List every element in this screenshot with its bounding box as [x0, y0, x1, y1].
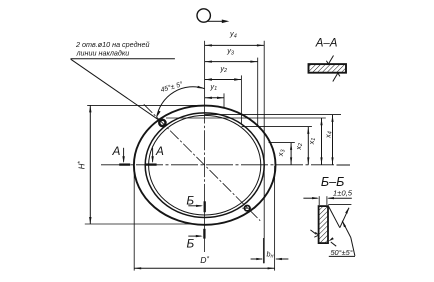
roughness mark left face of strip	[310, 230, 318, 237]
label D*	[200, 255, 209, 265]
x4 dimension line	[331, 115, 333, 165]
H* top extension line	[87, 104, 204, 106]
inner contour ellipse of pad	[145, 113, 264, 218]
vertical centerline / extension for y dims	[204, 41, 206, 252]
hole 2 (lower right)	[242, 206, 251, 211]
y1 extension line	[223, 93, 225, 108]
D* dimension line	[134, 267, 274, 269]
x2 extension line	[242, 126, 312, 128]
D* left extension line	[133, 167, 135, 271]
y2 dimension line	[205, 78, 242, 80]
label H*	[77, 161, 86, 170]
45-degree angular dimension arc	[157, 86, 205, 118]
y1 dimension line	[205, 97, 224, 99]
label x3	[276, 148, 286, 157]
bevel angle line 2	[340, 207, 349, 228]
x1 extension line	[166, 117, 326, 119]
x3 dimension line	[290, 143, 292, 165]
svg-text:А–А: А–А	[315, 37, 338, 49]
svg-text:линии накладки: линии накладки	[76, 48, 130, 57]
right extension line (outer right)	[274, 166, 276, 271]
leader shelf underline	[71, 58, 175, 60]
b_n dimension line left part	[251, 258, 264, 260]
roughness mark bottom right of strip	[329, 237, 337, 246]
thickness dimension line right part	[327, 197, 352, 199]
top surface line of B-B	[328, 203, 351, 205]
inner edge second line	[149, 115, 261, 215]
svg-text:А: А	[155, 144, 164, 158]
x1 dimension line	[320, 118, 322, 165]
45-degree diagonal centerline	[144, 104, 260, 220]
leader line to hole 1	[71, 59, 160, 120]
label B lower	[186, 236, 194, 250]
section B-B cut mark upper	[188, 201, 204, 212]
y3 dimension line	[205, 61, 258, 63]
angle text underline	[329, 255, 355, 257]
label x2	[294, 143, 304, 151]
svg-text:1±0,5: 1±0,5	[333, 189, 353, 198]
label A left	[111, 144, 120, 158]
svg-text:А: А	[111, 144, 120, 158]
b_n left extension line	[262, 238, 264, 263]
label section A-A	[315, 37, 338, 49]
roughness mark bottom of plate	[333, 73, 340, 82]
label y1	[209, 82, 217, 92]
label A right	[155, 144, 164, 158]
section A-A hatched plate	[309, 64, 347, 73]
svg-text:Б–Б: Б–Б	[321, 175, 344, 189]
leader line to angle text	[342, 220, 355, 256]
x3 extension line	[269, 142, 295, 144]
H* dimension line	[89, 105, 91, 224]
horizontal centerline	[101, 164, 350, 166]
label x4	[323, 131, 333, 139]
section A-A cut mark left	[119, 148, 130, 165]
svg-text:Б: Б	[186, 193, 194, 207]
y4 / b_n extension line	[263, 41, 265, 263]
leader note text line 1	[75, 40, 150, 49]
label 1 pm 0,5	[333, 189, 353, 198]
label x1	[307, 138, 317, 146]
svg-text:Б: Б	[186, 236, 194, 250]
label y3	[226, 46, 235, 56]
section B-B hatched strip	[319, 206, 328, 243]
label y2	[219, 64, 227, 74]
thickness extension lines	[319, 196, 327, 205]
label 50deg pm 5	[330, 248, 352, 257]
label b_n	[267, 249, 274, 259]
leader note text line 2	[76, 48, 130, 57]
section A-A cut mark right	[145, 148, 156, 165]
bevel angle line 1	[329, 207, 340, 228]
svg-text:50°±5°: 50°±5°	[330, 248, 352, 257]
H* bottom extension line	[85, 223, 197, 225]
hole 1 (upper left, 2 otv. d10)	[159, 120, 165, 126]
label 45deg pm 5	[160, 80, 184, 94]
roughness mark top of plate	[326, 56, 333, 65]
x2 dimension line	[307, 127, 309, 165]
rotation direction symbol (circle with arrow)	[197, 9, 229, 23]
outer contour ellipse of pad	[134, 106, 276, 225]
y2 extension line	[240, 75, 242, 124]
y3 extension line	[257, 58, 259, 126]
y4 dimension line	[205, 44, 264, 46]
b_n dimension line right part	[275, 258, 289, 260]
label y4	[229, 29, 237, 39]
label B upper	[186, 193, 194, 207]
label section B-B	[321, 175, 344, 189]
x4 extension line	[205, 114, 341, 116]
thickness dimension line left part	[303, 197, 319, 199]
section B-B cut mark lower	[188, 229, 204, 239]
